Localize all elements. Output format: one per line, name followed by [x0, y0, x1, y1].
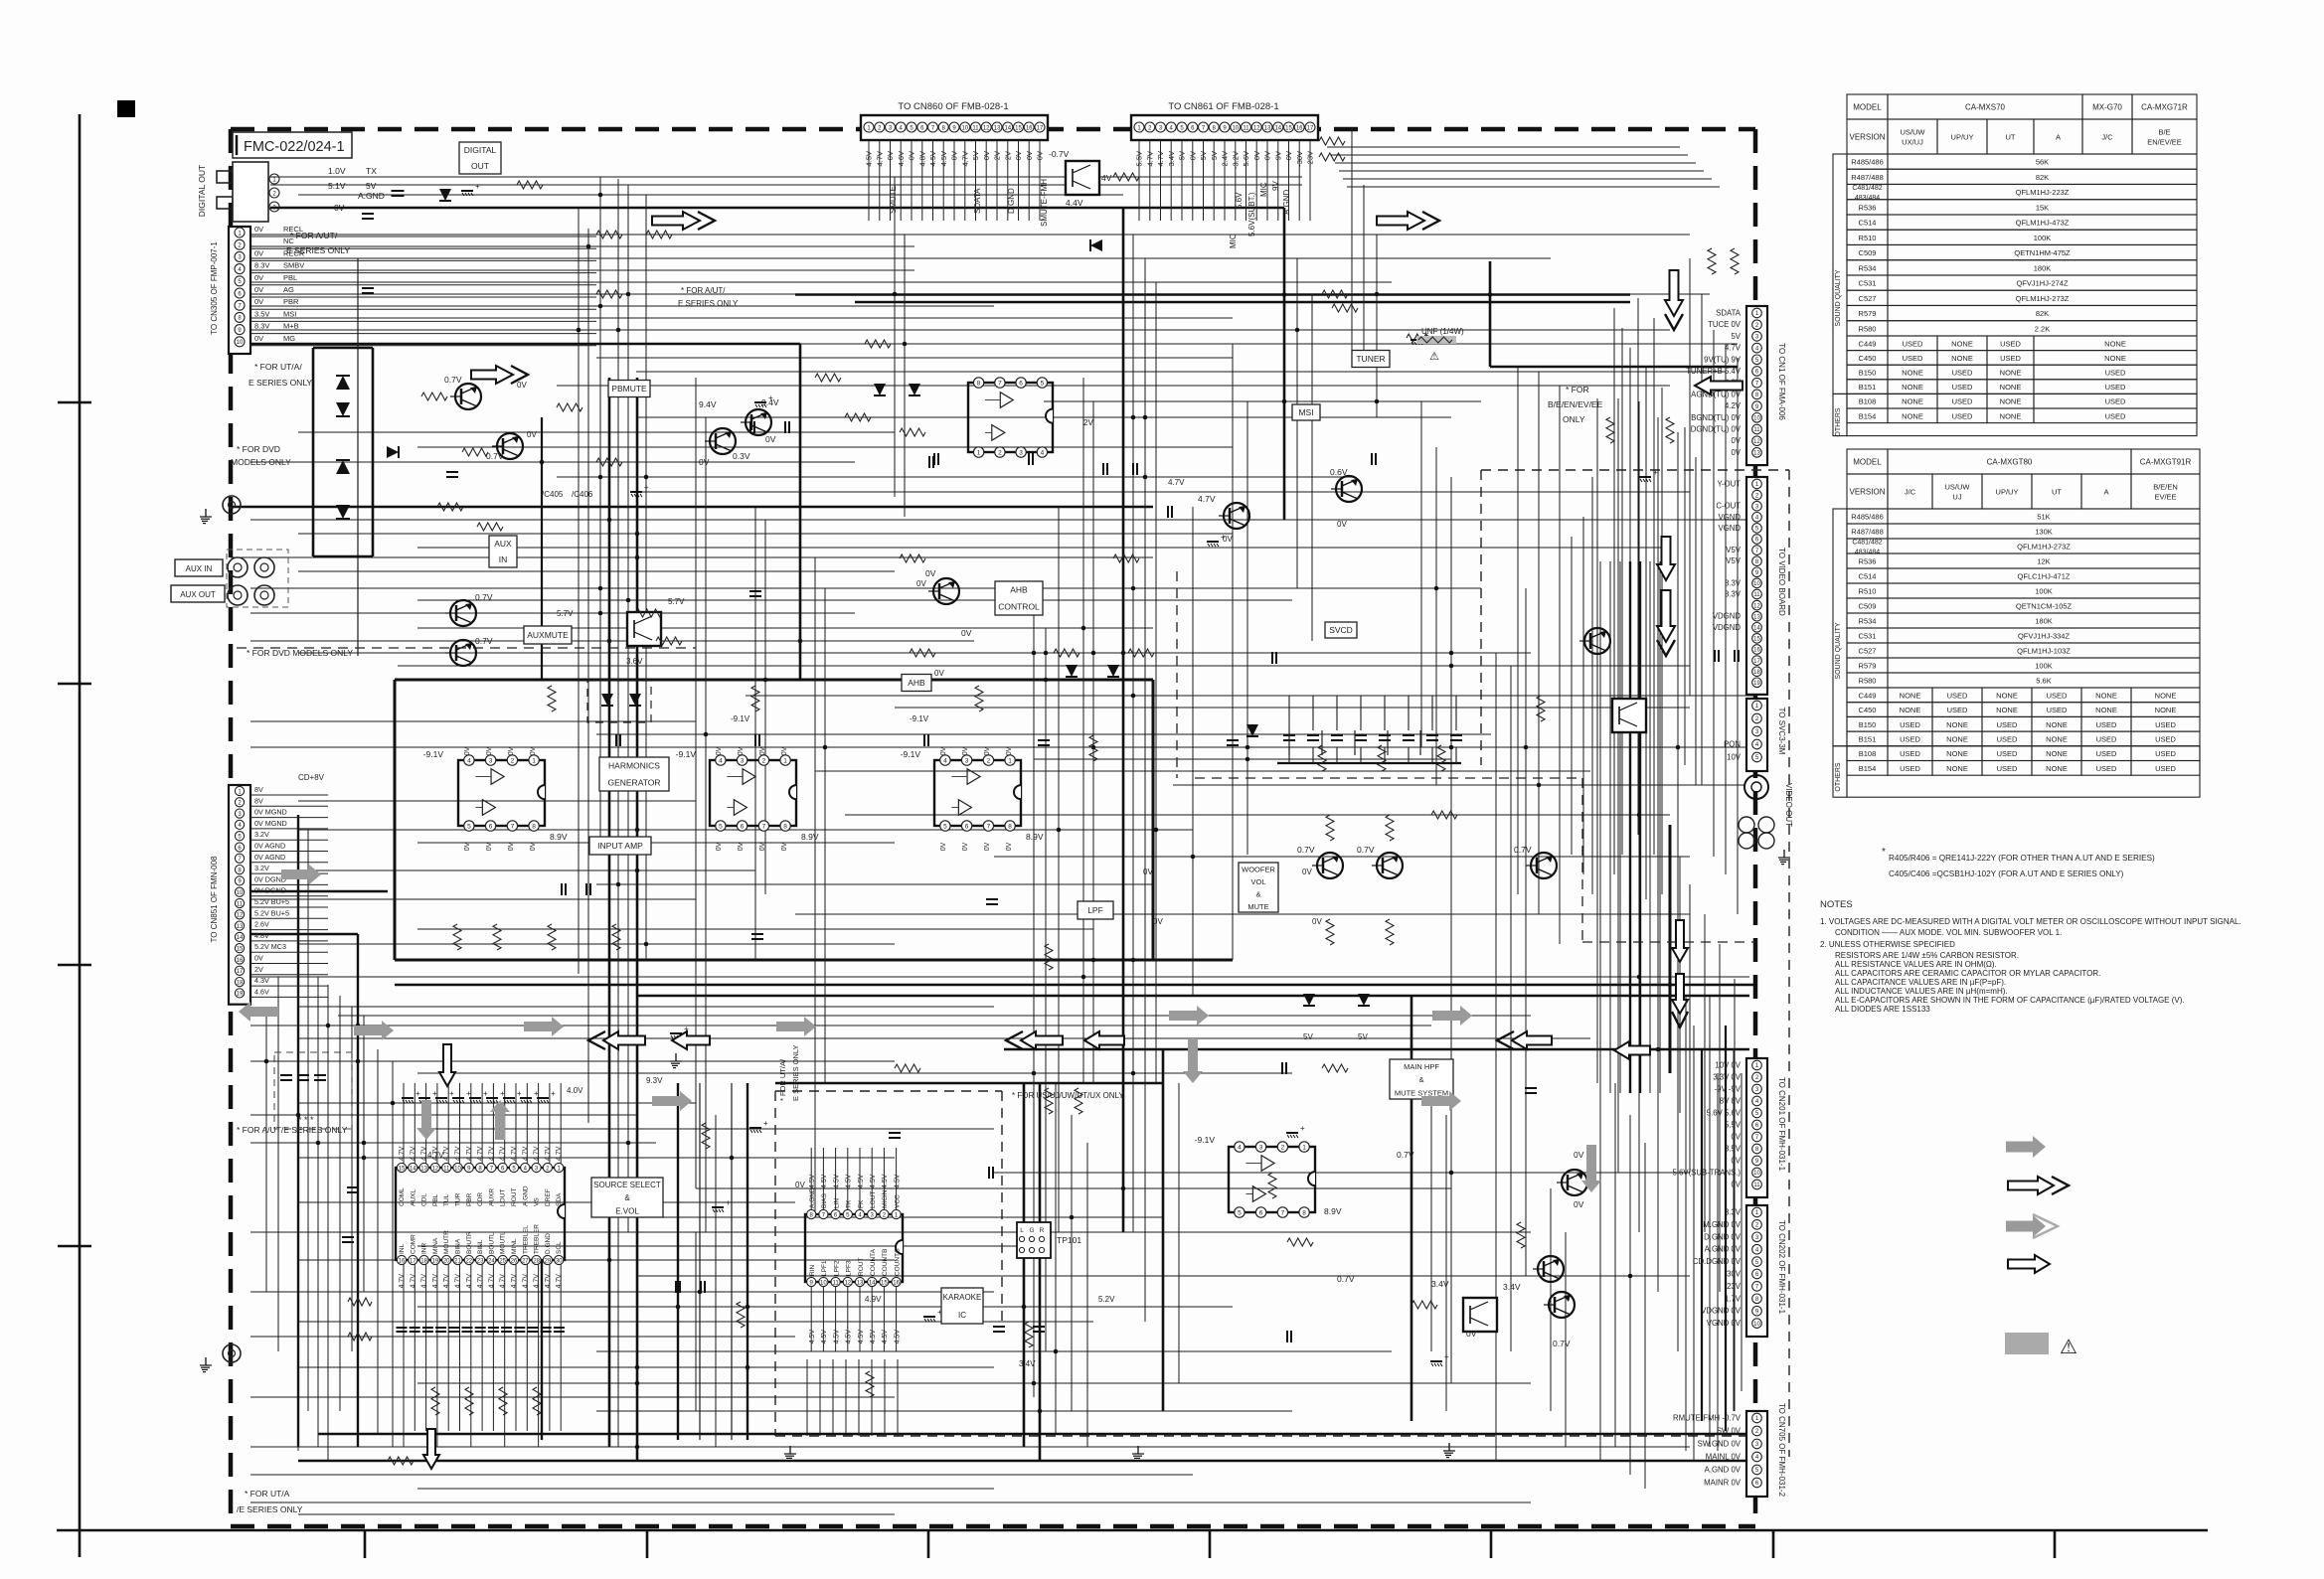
svg-text:CDL: CDL: [421, 1193, 428, 1206]
svg-text:E SERIES ONLY: E SERIES ONLY: [678, 299, 739, 308]
svg-text:4.5V: 4.5V: [894, 1174, 901, 1188]
svg-text:0V: 0V: [530, 746, 537, 755]
svg-text:82K: 82K: [2036, 173, 2049, 182]
svg-text:4.7V: 4.7V: [432, 1274, 439, 1289]
svg-text:10: 10: [1753, 581, 1760, 587]
svg-text:UP/UY: UP/UY: [1996, 488, 2019, 497]
svg-text:17: 17: [1307, 126, 1314, 132]
svg-text:0.7V: 0.7V: [1337, 1274, 1355, 1284]
svg-text:*: *: [1882, 847, 1886, 858]
svg-text:3: 3: [489, 758, 493, 765]
svg-text:3.5V: 3.5V: [254, 309, 269, 318]
svg-text:USED: USED: [1900, 720, 1920, 729]
svg-text:0V DGND: 0V DGND: [254, 886, 286, 895]
svg-text:0V: 0V: [1574, 1199, 1584, 1209]
svg-text:* FOR A/UT/E SERIES ONLY: * FOR A/UT/E SERIES ONLY: [237, 1125, 348, 1135]
svg-text:MG: MG: [283, 334, 295, 343]
svg-text:5V: 5V: [1731, 332, 1741, 341]
svg-text:MSI: MSI: [1298, 407, 1313, 417]
svg-text:8: 8: [1302, 1210, 1306, 1217]
svg-text:+: +: [551, 1089, 556, 1098]
svg-text:0V: 0V: [886, 151, 895, 160]
svg-text:4: 4: [719, 758, 723, 765]
svg-text:4.7V: 4.7V: [455, 1274, 462, 1289]
svg-text:MIC: MIC: [1259, 182, 1268, 197]
svg-text:5.6K: 5.6K: [2036, 677, 2051, 686]
svg-text:/C406: /C406: [572, 490, 593, 499]
svg-text:483/484: 483/484: [1855, 550, 1880, 556]
svg-text:0.7V: 0.7V: [1357, 845, 1375, 855]
svg-text:0V: 0V: [781, 746, 788, 755]
svg-text:18: 18: [420, 1258, 427, 1264]
svg-text:4.0V: 4.0V: [567, 1086, 583, 1095]
svg-text:MODELS ONLY: MODELS ONLY: [231, 457, 291, 467]
svg-text:ALL CAPACITORS ARE CERAMIC CAP: ALL CAPACITORS ARE CERAMIC CAPACITOR OR …: [1835, 969, 2100, 978]
svg-text:AGND(TU) 0V: AGND(TU) 0V: [1691, 390, 1742, 398]
svg-text:USED: USED: [1997, 749, 2018, 758]
svg-text:4.5V: 4.5V: [809, 1330, 816, 1344]
svg-text:C509: C509: [1859, 248, 1877, 257]
svg-text:19: 19: [1753, 681, 1760, 687]
svg-text:10: 10: [961, 126, 968, 132]
svg-text:180K: 180K: [2035, 617, 2053, 626]
svg-text:WOOFER: WOOFER: [1242, 866, 1275, 874]
svg-text:R534: R534: [1859, 617, 1877, 626]
svg-text:4.9V: 4.9V: [865, 1295, 882, 1304]
svg-text:14: 14: [410, 1166, 416, 1172]
svg-text:VGND: VGND: [1718, 513, 1741, 522]
svg-text:29: 29: [545, 1258, 552, 1264]
svg-text:0.7V: 0.7V: [1514, 845, 1532, 855]
svg-text:L: L: [1020, 1227, 1024, 1234]
svg-text:1. VOLTAGES ARE DC-MEASURED WI: 1. VOLTAGES ARE DC-MEASURED WITH A DIGIT…: [1820, 917, 2241, 926]
svg-text:D.GND: D.GND: [1007, 188, 1016, 214]
svg-text:0V: 0V: [982, 151, 991, 160]
svg-text:0V: 0V: [527, 430, 537, 439]
svg-text:5V: 5V: [1210, 151, 1219, 160]
svg-text:GENERATOR: GENERATOR: [607, 778, 660, 788]
svg-text:TO CN202 OF FMH-031-1: TO CN202 OF FMH-031-1: [1777, 1220, 1786, 1315]
svg-text:MOUTL: MOUTL: [500, 1231, 507, 1254]
svg-text:MICIN: MICIN: [882, 1189, 889, 1208]
svg-text:-9.1V: -9.1V: [423, 749, 444, 759]
svg-text:TX: TX: [366, 166, 377, 176]
svg-text:USED: USED: [2105, 397, 2126, 406]
svg-text:8.9V: 8.9V: [550, 832, 568, 842]
svg-text:1.0V: 1.0V: [328, 166, 346, 176]
svg-text:+: +: [475, 182, 480, 191]
svg-text:ROUT: ROUT: [511, 1188, 518, 1206]
svg-text:ALL E-CAPACITORS ARE SHOWN IN: ALL E-CAPACITORS ARE SHOWN IN THE FORM O…: [1835, 996, 2185, 1005]
svg-text:ALL CAPACITANCE VALUES ARE IN: ALL CAPACITANCE VALUES ARE IN µF(P=pF).: [1835, 978, 2006, 987]
svg-text:0V: 0V: [1143, 868, 1153, 876]
svg-text:VS: VS: [534, 1197, 541, 1206]
svg-text:M.GND 0V: M.GND 0V: [1703, 1220, 1741, 1229]
svg-text:USED: USED: [1997, 764, 2018, 773]
svg-text:&: &: [1418, 1075, 1423, 1084]
svg-text:C527: C527: [1859, 294, 1877, 303]
svg-text:3.2V: 3.2V: [254, 830, 269, 839]
svg-text:4.6V: 4.6V: [254, 987, 269, 996]
svg-text:&: &: [624, 1193, 630, 1202]
svg-text:USED: USED: [1947, 706, 1968, 714]
svg-text:BGND(TU) 0V: BGND(TU) 0V: [1691, 413, 1742, 422]
svg-text:8V: 8V: [254, 796, 263, 805]
svg-text:5.6V(SUBT.): 5.6V(SUBT.): [1247, 192, 1256, 237]
svg-text:TO CN851 OF FMN-008: TO CN851 OF FMN-008: [210, 856, 219, 943]
svg-text:100K: 100K: [2035, 662, 2053, 671]
svg-text:5.6V: 5.6V: [1235, 192, 1244, 209]
svg-text:A: A: [2103, 488, 2108, 497]
svg-text:4: 4: [467, 758, 471, 765]
svg-text:/C405: /C405: [542, 490, 564, 499]
svg-text:EV/EE: EV/EE: [2154, 493, 2176, 502]
svg-text:VGND 0V: VGND 0V: [1707, 1319, 1742, 1328]
svg-text:4.5V: 4.5V: [809, 1174, 816, 1188]
svg-text:5.5V: 5.5V: [1135, 151, 1144, 166]
svg-text:SMUTE: SMUTE: [889, 186, 898, 214]
svg-text:9V: 9V: [1271, 181, 1280, 191]
svg-text:VDGND: VDGND: [1713, 612, 1742, 621]
svg-text:USED: USED: [2105, 383, 2126, 392]
svg-text:4.7V: 4.7V: [443, 1146, 450, 1161]
svg-text:100K: 100K: [2034, 234, 2052, 242]
svg-text:+: +: [768, 394, 773, 402]
svg-text:0V: 0V: [254, 248, 263, 257]
svg-text:COUNTB: COUNTB: [882, 1249, 889, 1276]
svg-text:-0.7V: -0.7V: [1049, 149, 1070, 159]
svg-text:4.7V: 4.7V: [511, 1146, 518, 1161]
svg-text:4.7V: 4.7V: [410, 1146, 416, 1161]
svg-text:NONE: NONE: [1902, 411, 1923, 420]
svg-text:4.7V: 4.7V: [1168, 478, 1185, 487]
svg-text:-9.1V: -9.1V: [676, 749, 697, 759]
svg-text:14: 14: [1004, 126, 1011, 132]
svg-text:NONE: NONE: [2095, 691, 2117, 700]
svg-text:4.7V: 4.7V: [875, 151, 884, 166]
svg-text:17: 17: [410, 1258, 416, 1264]
svg-text:5V: 5V: [1303, 1032, 1313, 1041]
svg-text:B154: B154: [1859, 411, 1877, 420]
svg-text:2V: 2V: [254, 965, 263, 974]
svg-text:B/E/EN: B/E/EN: [2153, 483, 2178, 492]
svg-text:4.5V: 4.5V: [939, 151, 948, 166]
svg-text:10V 0V: 10V 0V: [1715, 1061, 1741, 1070]
svg-text:* FOR UT/A/: * FOR UT/A/: [778, 1058, 787, 1101]
svg-text:R: R: [1040, 1227, 1045, 1234]
svg-text:13: 13: [994, 126, 1001, 132]
svg-text:A.GND 0V: A.GND 0V: [1705, 1466, 1742, 1475]
svg-text:A.GND: A.GND: [1282, 189, 1291, 215]
svg-text:USED: USED: [2105, 411, 2126, 420]
svg-text:7: 7: [998, 381, 1002, 388]
svg-text:C449: C449: [1859, 691, 1877, 700]
svg-text:B151: B151: [1859, 383, 1877, 392]
svg-text:0V: 0V: [940, 842, 947, 851]
svg-text:AUXMUTE: AUXMUTE: [527, 630, 569, 640]
svg-text:+: +: [763, 1119, 768, 1128]
svg-text:5.7V: 5.7V: [668, 597, 685, 606]
svg-text:EN/EV/EE: EN/EV/EE: [2147, 138, 2182, 147]
svg-text:4: 4: [943, 758, 947, 765]
svg-text:0V: 0V: [950, 151, 959, 160]
svg-text:4.7V: 4.7V: [1198, 494, 1216, 504]
svg-text:0V: 0V: [716, 746, 723, 755]
svg-text:16: 16: [1026, 126, 1033, 132]
svg-text:NONE: NONE: [1951, 339, 1973, 348]
svg-text:11: 11: [443, 1166, 450, 1172]
svg-text:MODEL: MODEL: [1853, 103, 1882, 112]
svg-text:ALL INDUCTANCE VALUES ARE IN µ: ALL INDUCTANCE VALUES ARE IN µH(m=mH).: [1835, 987, 2008, 996]
svg-text:MOUTR: MOUTR: [443, 1230, 450, 1254]
svg-text:0V: 0V: [254, 297, 263, 306]
svg-text:5.6V(SUB-TRANS.): 5.6V(SUB-TRANS.): [1673, 1169, 1742, 1178]
svg-text:4.7V: 4.7V: [522, 1146, 529, 1161]
svg-text:USED: USED: [1903, 354, 1923, 363]
svg-text:+: +: [1653, 468, 1658, 477]
svg-text:3: 3: [741, 758, 745, 765]
svg-text:PBL: PBL: [432, 1193, 439, 1206]
svg-text:0V AGND: 0V AGND: [254, 842, 285, 851]
svg-text:20: 20: [443, 1258, 450, 1264]
svg-text:CA-MXS70: CA-MXS70: [1965, 103, 2006, 112]
svg-text:E SERIES ONLY: E SERIES ONLY: [286, 245, 350, 255]
svg-text:INPUT AMP: INPUT AMP: [597, 841, 643, 851]
svg-text:USED: USED: [2047, 706, 2068, 714]
svg-text:3.5V: 3.5V: [1725, 1145, 1742, 1154]
svg-text:TREBLER: TREBLER: [534, 1224, 541, 1254]
svg-text:0V: 0V: [254, 285, 263, 294]
svg-text:DIGITAL OUT: DIGITAL OUT: [197, 165, 207, 217]
svg-text:NONE: NONE: [2104, 354, 2126, 363]
svg-text:4.6V: 4.6V: [897, 151, 906, 166]
svg-text:C531: C531: [1859, 632, 1877, 641]
svg-text:⚠: ⚠: [2060, 1337, 2077, 1358]
svg-text:5V: 5V: [1358, 1032, 1368, 1041]
svg-text:2: 2: [987, 758, 991, 765]
svg-text:* FOR US/UJ/UW/UT/UX ONLY: * FOR US/UJ/UW/UT/UX ONLY: [1012, 1091, 1124, 1100]
svg-text:AUX IN: AUX IN: [186, 564, 213, 573]
svg-text:23: 23: [477, 1258, 484, 1264]
svg-text:14: 14: [869, 1280, 876, 1286]
svg-text:5: 5: [1238, 1210, 1242, 1217]
svg-text:D.GND 0V: D.GND 0V: [1704, 1232, 1742, 1241]
svg-text:0V: 0V: [984, 746, 991, 755]
svg-text:NONE: NONE: [1902, 369, 1923, 378]
svg-text:12: 12: [1253, 126, 1260, 132]
svg-text:15: 15: [1015, 126, 1022, 132]
svg-text:4.7V: 4.7V: [500, 1274, 507, 1289]
svg-text:8.9V: 8.9V: [1026, 832, 1044, 842]
svg-text:17: 17: [237, 969, 244, 975]
svg-text:5V: 5V: [366, 181, 377, 191]
svg-text:R487/488: R487/488: [1851, 528, 1884, 537]
svg-text:C481/482: C481/482: [1852, 185, 1882, 192]
svg-text:CDR: CDR: [477, 1192, 484, 1206]
svg-text:QFLM1HJ-273Z: QFLM1HJ-273Z: [2017, 543, 2071, 552]
svg-text:R580: R580: [1859, 677, 1877, 686]
svg-text:3.3V 0V: 3.3V 0V: [1713, 1073, 1742, 1082]
svg-text:PBL: PBL: [283, 273, 297, 282]
svg-text:0V: 0V: [1574, 1150, 1584, 1160]
svg-text:DREF: DREF: [545, 1188, 552, 1206]
svg-text:BOUTR: BOUTR: [466, 1231, 473, 1254]
svg-text:5.2V BU+5: 5.2V BU+5: [254, 897, 289, 906]
svg-text:D.GND: D.GND: [545, 1233, 552, 1254]
svg-text:15: 15: [1285, 126, 1292, 132]
svg-text:&: &: [1255, 890, 1260, 899]
svg-text:0.7V: 0.7V: [1297, 845, 1315, 855]
svg-text:USED: USED: [2105, 369, 2126, 378]
svg-text:15: 15: [881, 1280, 888, 1286]
svg-text:30: 30: [556, 1258, 563, 1264]
svg-text:TUCE 0V: TUCE 0V: [1708, 320, 1742, 329]
svg-text:OUT: OUT: [471, 161, 489, 171]
svg-text:R510: R510: [1859, 587, 1877, 596]
svg-text:QFLM1HJ-273Z: QFLM1HJ-273Z: [2016, 294, 2070, 303]
svg-text:3: 3: [1019, 450, 1023, 457]
svg-text:TO SVC3-3M: TO SVC3-3M: [1777, 708, 1786, 755]
svg-text:9V(TU) 9V: 9V(TU) 9V: [1704, 355, 1742, 364]
svg-text:5V: 5V: [1199, 151, 1208, 160]
svg-text:12: 12: [1753, 603, 1760, 609]
svg-text:PBR: PBR: [283, 297, 299, 306]
svg-text:0V: 0V: [738, 746, 745, 755]
svg-text:3: 3: [1259, 1145, 1263, 1152]
svg-text:+: +: [449, 1089, 454, 1098]
svg-text:NONE: NONE: [2104, 339, 2126, 348]
svg-text:0V: 0V: [962, 746, 969, 755]
svg-text:8.9V: 8.9V: [801, 832, 819, 842]
svg-text:3.4V: 3.4V: [1167, 151, 1176, 166]
svg-text:0V: 0V: [738, 842, 745, 851]
svg-text:USED: USED: [1952, 397, 1973, 406]
svg-text:SCL: SCL: [556, 1241, 563, 1254]
svg-text:2: 2: [762, 758, 766, 765]
svg-text:NONE: NONE: [1902, 383, 1923, 392]
svg-text:7: 7: [1281, 1210, 1285, 1217]
svg-text:QFLM1HJ-223Z: QFLM1HJ-223Z: [2016, 188, 2070, 197]
svg-text:MIC: MIC: [1229, 234, 1238, 248]
svg-text:/E SERIES ONLY: /E SERIES ONLY: [237, 1504, 303, 1514]
svg-text:4.5V: 4.5V: [870, 1330, 877, 1344]
svg-text:13: 13: [420, 1166, 427, 1172]
svg-text:TREBLEL: TREBLEL: [522, 1225, 529, 1254]
svg-text:14: 14: [1274, 126, 1281, 132]
svg-text:-23V: -23V: [1306, 151, 1315, 167]
svg-text:11: 11: [972, 126, 979, 132]
svg-text:TUR: TUR: [455, 1192, 462, 1206]
svg-text:CONTROL: CONTROL: [998, 602, 1040, 612]
svg-text:USED: USED: [1997, 720, 2018, 729]
svg-text:0.7V: 0.7V: [444, 375, 462, 385]
svg-text:4.8V: 4.8V: [254, 931, 269, 940]
svg-text:5V: 5V: [971, 151, 980, 160]
svg-text:15: 15: [399, 1166, 406, 1172]
svg-text:4.7V: 4.7V: [488, 1274, 495, 1289]
svg-text:TUNER+B 5.4V: TUNER+B 5.4V: [1686, 367, 1742, 376]
svg-text:UNF (1/4W): UNF (1/4W): [1421, 327, 1464, 336]
svg-text:0V: 0V: [508, 746, 515, 755]
svg-text:2. UNLESS OTHERWISE SPECIFIED: 2. UNLESS OTHERWISE SPECIFIED: [1820, 940, 1955, 949]
svg-text:0V: 0V: [1014, 151, 1023, 160]
svg-text:10: 10: [454, 1166, 461, 1172]
svg-text:4.7V: 4.7V: [427, 1151, 444, 1160]
svg-text:0V: 0V: [961, 628, 972, 638]
svg-text:SMUTE-FMH: SMUTE-FMH: [1040, 179, 1049, 227]
svg-text:4.4V: 4.4V: [1066, 198, 1083, 208]
svg-text:US/UW: US/UW: [1945, 483, 1971, 492]
svg-text:HARMONICS: HARMONICS: [608, 761, 660, 771]
svg-text:AUXR: AUXR: [488, 1188, 495, 1206]
svg-text:AHB: AHB: [1010, 585, 1028, 595]
svg-text:R405/R406 = QRE141J-222Y (FOR: R405/R406 = QRE141J-222Y (FOR OTHER THAN…: [1889, 854, 2155, 863]
svg-text:0V: 0V: [1188, 151, 1197, 160]
svg-text:ONLY: ONLY: [1563, 414, 1585, 424]
svg-text:QETN1HM-475Z: QETN1HM-475Z: [2014, 248, 2071, 257]
svg-text:16: 16: [399, 1258, 406, 1264]
svg-text:16: 16: [1296, 126, 1303, 132]
svg-text:17: 17: [1753, 659, 1760, 665]
svg-text:NONE: NONE: [2046, 764, 2068, 773]
svg-text:SDATA: SDATA: [973, 188, 982, 214]
svg-text:16: 16: [893, 1280, 900, 1286]
svg-text:4.7V: 4.7V: [399, 1146, 406, 1161]
svg-text:9.4V: 9.4V: [699, 399, 717, 409]
svg-text:+: +: [466, 1089, 471, 1098]
svg-text:USED: USED: [2096, 749, 2117, 758]
svg-text:15K: 15K: [2036, 203, 2049, 212]
svg-text:+: +: [534, 1089, 539, 1098]
svg-text:COML: COML: [399, 1187, 406, 1206]
svg-text:NONE: NONE: [1946, 720, 1968, 729]
svg-text:25: 25: [499, 1258, 506, 1264]
svg-text:+: +: [483, 1089, 488, 1098]
svg-text:0.3V: 0.3V: [733, 451, 750, 461]
svg-text:-30V: -30V: [1725, 1270, 1742, 1279]
svg-text:4.5V: 4.5V: [894, 1330, 901, 1344]
svg-text:180K: 180K: [2034, 263, 2052, 272]
svg-text:4.7V: 4.7V: [410, 1274, 416, 1289]
svg-text:11: 11: [1753, 592, 1760, 598]
svg-text:TO VIDEO BOARD: TO VIDEO BOARD: [1777, 548, 1786, 616]
svg-text:3.4V: 3.4V: [1431, 1279, 1449, 1289]
svg-text:4.8V: 4.8V: [917, 151, 926, 166]
svg-text:USED: USED: [1952, 411, 1973, 420]
svg-text:4V: 4V: [1101, 173, 1112, 183]
svg-text:12: 12: [844, 1280, 851, 1286]
svg-text:ROUT: ROUT: [858, 1258, 865, 1276]
svg-text:SOUND QUALITY: SOUND QUALITY: [1835, 622, 1842, 680]
svg-text:4.7V: 4.7V: [1145, 151, 1154, 166]
svg-text:PON: PON: [1724, 740, 1741, 749]
svg-text:LOUT: LOUT: [500, 1189, 507, 1206]
svg-text:10V: 10V: [1727, 753, 1742, 762]
svg-text:4.7V: 4.7V: [556, 1274, 563, 1289]
svg-text:5: 5: [1041, 381, 1045, 388]
svg-text:0V: 0V: [530, 842, 537, 851]
svg-text:KARAOKE: KARAOKE: [943, 1293, 982, 1302]
svg-text:NONE: NONE: [1900, 691, 1921, 700]
svg-text:0.7V: 0.7V: [1553, 1339, 1571, 1348]
svg-text:IC: IC: [958, 1311, 966, 1320]
svg-text:-3.2V: -3.2V: [1231, 151, 1240, 169]
svg-text:C509: C509: [1859, 602, 1877, 611]
svg-text:NOTES: NOTES: [1820, 899, 1853, 910]
svg-text:4.5V: 4.5V: [858, 1174, 865, 1188]
svg-text:BIAS: BIAS: [821, 1193, 828, 1208]
svg-text:3.3V: 3.3V: [1725, 578, 1742, 587]
